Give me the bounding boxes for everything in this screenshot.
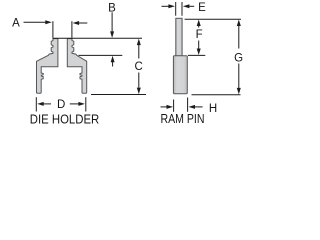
dim F arrow down <box>198 41 200 49</box>
dim B arrow down <box>111 12 113 31</box>
dim D extension line right <box>85 97 87 111</box>
svg-text:D: D <box>57 99 65 111</box>
top reference line of die holder neck <box>53 37 143 39</box>
dim C line upper with arrow up <box>137 39 141 46</box>
dim B arrow up <box>111 56 115 63</box>
dim D arrow left <box>37 102 44 106</box>
dim A extension line right <box>71 21 73 38</box>
dim A leader arrow (points right) <box>24 21 46 23</box>
dim F arrow up <box>197 20 201 27</box>
svg-text:F: F <box>196 29 203 41</box>
dim C line lower with arrow down <box>138 73 140 88</box>
ram pin rod <box>176 18 182 56</box>
svg-text:E: E <box>198 2 206 14</box>
dim H arrow left side (points right) <box>161 106 167 108</box>
die holder right half section <box>67 39 86 94</box>
bottom reference line of die holder <box>91 94 146 96</box>
svg-text:C: C <box>134 61 142 73</box>
svg-text:A: A <box>12 17 20 29</box>
dim G line lower with arrow down <box>238 64 240 89</box>
dim E arrow right side (points left) <box>183 4 190 8</box>
svg-text:H: H <box>209 103 217 115</box>
dim A extension line left <box>52 21 54 38</box>
body bottom reference line <box>192 94 241 96</box>
svg-text:DIE HOLDER: DIE HOLDER <box>30 113 100 127</box>
dim H extension line right <box>187 98 189 112</box>
dim H extension line left <box>173 100 175 112</box>
svg-text:RAM PIN: RAM PIN <box>161 112 205 126</box>
dim E arrow left side (points right) <box>162 5 169 7</box>
shoulder reference line <box>79 54 123 56</box>
svg-text:G: G <box>234 52 243 64</box>
ram pin body <box>173 56 187 94</box>
dim E extension line left <box>175 2 177 16</box>
die holder left half section <box>37 39 58 94</box>
dim D arrow right <box>70 103 79 105</box>
dim H arrow right side (points left) <box>189 105 196 109</box>
rod top reference line <box>185 18 241 20</box>
dim D extension line left <box>35 97 37 111</box>
rod bottom reference line <box>188 54 205 56</box>
dim A arrow right (points left) <box>73 21 80 25</box>
dim G line upper with arrow up <box>237 20 241 27</box>
dim E extension line right <box>181 2 183 16</box>
